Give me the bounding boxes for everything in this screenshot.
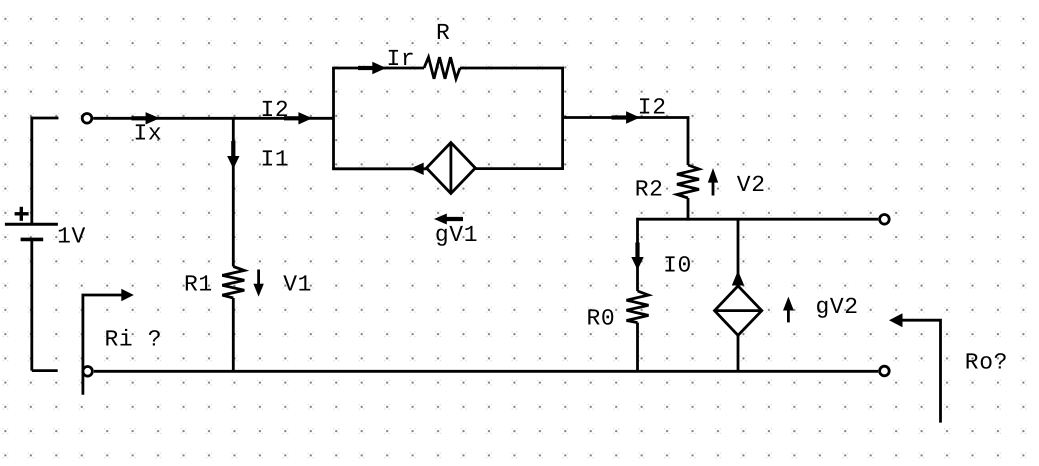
wire R1 bottom [232, 298, 235, 372]
probe arrow Ro [889, 313, 941, 422]
wire gV2 branch top [737, 219, 740, 286]
wire node junction down to R1 [232, 118, 235, 266]
terminal (input top) [82, 114, 92, 124]
svg-text:R0: R0 [587, 306, 616, 332]
wire gV2 bottom [737, 335, 740, 372]
loop right edge [561, 68, 564, 169]
wire mid rail [638, 218, 879, 221]
wire bottom branch left [332, 167, 426, 170]
svg-text:gV1: gV1 [435, 222, 478, 248]
resistor R2 [677, 165, 699, 198]
svg-text:R1: R1 [184, 272, 213, 298]
voltage source V (1V battery) [5, 117, 59, 371]
arrow V2 [708, 168, 718, 196]
arrow I0 [631, 243, 643, 271]
wire top branch left [332, 67, 424, 70]
arrow gV2 label [783, 297, 794, 323]
wire bottom rail [94, 370, 878, 373]
svg-text:I2: I2 [261, 97, 290, 123]
resistor R [424, 57, 460, 79]
wire bottom branch right [475, 167, 564, 170]
terminal (input bottom) [83, 367, 93, 377]
svg-text:I0: I0 [663, 253, 692, 279]
svg-text:I1: I1 [261, 147, 290, 173]
arrow Ix [131, 112, 159, 124]
svg-text:I2: I2 [638, 94, 667, 120]
terminal (output top) [880, 215, 890, 225]
svg-text:gV2: gV2 [816, 294, 859, 320]
arrow V1 [253, 270, 263, 297]
svg-text:R: R [436, 20, 450, 46]
wire output mid (I2 right) [563, 118, 688, 166]
svg-text:Ro?: Ro? [965, 349, 1008, 375]
wire R2 bottom [687, 198, 690, 221]
wire R0 bottom [636, 323, 639, 372]
arrow I2 right [612, 111, 640, 123]
svg-text:Ri ?: Ri ? [105, 326, 163, 352]
wire input top [93, 117, 333, 120]
svg-text:Ir: Ir [387, 46, 416, 72]
terminal (output bottom) [880, 366, 890, 376]
probe arrow Ri [83, 289, 134, 395]
resistor R0 [627, 291, 649, 323]
wire R0 branch top [636, 218, 639, 291]
arrow I2 left [284, 112, 312, 124]
dependent source gV2 (diamond) [715, 286, 762, 335]
arrow I1 [227, 141, 239, 169]
svg-text:R2: R2 [635, 176, 664, 202]
wire top branch right [460, 67, 564, 70]
arrow gV1 label [434, 214, 463, 225]
svg-text:V1: V1 [283, 272, 312, 298]
arrow of source gV2 (current direction) [732, 271, 744, 286]
svg-text:V2: V2 [737, 172, 766, 198]
svg-text:1V: 1V [57, 223, 86, 249]
dependent source gV1 (diamond) [427, 143, 476, 194]
loop left edge [332, 68, 335, 169]
svg-text:Ix: Ix [134, 121, 163, 147]
resistor R1 [222, 267, 244, 299]
arrow of source gV1 (current direction) [410, 163, 424, 175]
arrow Ir [358, 62, 386, 74]
